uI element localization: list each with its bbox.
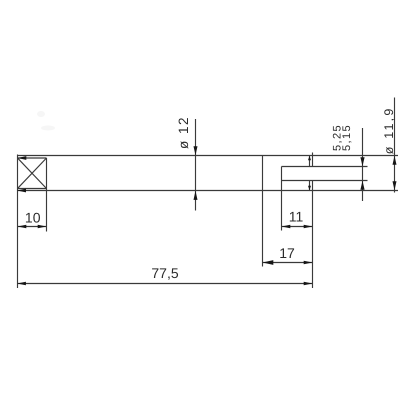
inner diameter arrows line lower segment: [309, 181, 311, 191]
slot top edge: [282, 166, 368, 168]
5,25 5,15 lower arrow pointing up at slot bottom: [360, 181, 364, 190]
10 dim right arrow: [38, 225, 47, 229]
dia 12 dimension line: [195, 119, 197, 211]
square end bottom edge: [18, 188, 47, 190]
77,5 dim left arrow: [17, 282, 26, 286]
inner bottom arrow pointing down at shaft bottom: [308, 186, 311, 191]
square end top edge: [18, 157, 47, 159]
11 dim right arrow: [304, 225, 313, 229]
dia 12 bottom arrow (outside pointing up): [194, 191, 198, 200]
arrow left on shaft bottom line: [17, 189, 26, 193]
right end face / dim line 5,25 5,15: [362, 128, 364, 201]
square diagonal 1: [18, 158, 47, 188]
svg-text:ø 11,9: ø 11,9: [382, 106, 396, 154]
inner top arrow pointing up at shaft top: [308, 156, 311, 161]
11 dim left arrow: [282, 225, 291, 229]
svg-text:5,15: 5,15: [341, 124, 353, 151]
dia 11,9 top arrow pointing up: [393, 156, 397, 165]
faint smudge artifacts top-left: [37, 111, 55, 131]
10 dimension line: [18, 226, 47, 228]
dia 12 top arrow (outside pointing down): [194, 146, 198, 155]
shaft top outline + ext to dia 11.9 dim: [18, 155, 399, 157]
slot bottom edge: [282, 180, 368, 182]
inner diameter arrows line upper segment: [309, 156, 311, 167]
dia 11,9 dimension line: [394, 98, 396, 193]
svg-text:11: 11: [289, 209, 304, 225]
ext line for 11 17 77,5 lower segment: [312, 181, 314, 289]
17 dim left arrow: [263, 260, 274, 265]
arrow left on square top edge: [17, 156, 26, 160]
left end face / ext line for 10 and 77,5: [17, 155, 19, 289]
svg-text:77,5: 77,5: [151, 265, 178, 281]
17 dim right arrow: [304, 261, 313, 265]
17 dimension line: [263, 262, 313, 264]
77,5 dim right arrow: [304, 282, 313, 286]
svg-text:17: 17: [279, 245, 295, 261]
shaft bottom outline + ext to dia 11.9 dim: [17, 190, 398, 192]
square end right edge / ext line for 10: [46, 158, 48, 232]
77,5 dimension line: [17, 283, 312, 285]
square diagonal 2: [18, 158, 47, 188]
dia 11,9 bottom arrow pointing down: [393, 181, 397, 190]
5,25 5,15 upper arrow pointing down at slot top: [360, 157, 364, 166]
11 dimension line: [282, 226, 313, 228]
svg-text:ø 12: ø 12: [176, 116, 191, 149]
10 dim left arrow: [18, 225, 27, 229]
svg-text:10: 10: [25, 209, 41, 225]
slot left end / ext line for 11: [281, 167, 283, 231]
step line at 17 / ext line for 17: [262, 156, 264, 267]
ext line for 11 17 77,5 upper segment: [312, 153, 314, 167]
